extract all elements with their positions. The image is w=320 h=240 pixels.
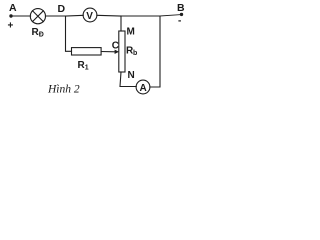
svg-text:A: A [140, 83, 147, 94]
svg-text:D: D [58, 3, 66, 15]
node B [177, 2, 185, 27]
ammeter A [136, 80, 150, 94]
wire junction to B segment [121, 15, 160, 17]
wire ammeter up to top wire [150, 16, 160, 87]
wire voltmeter to rheostat-top junction [97, 14, 121, 17]
svg-text:N: N [128, 70, 135, 81]
node A [8, 2, 18, 32]
wiper arrow C [112, 41, 119, 55]
voltmeter V [83, 8, 97, 22]
lamp RD (bulb) [30, 9, 45, 39]
svg-text:Đ: Đ [39, 31, 44, 38]
svg-text:1: 1 [85, 65, 89, 72]
wire lamp to D [45, 15, 65, 17]
rheostat Rb [119, 27, 137, 82]
wire D to voltmeter [66, 14, 84, 17]
wire R1 to wiper arrow [101, 51, 115, 53]
svg-text:A: A [9, 2, 17, 14]
svg-text:Hình 2: Hình 2 [47, 84, 80, 96]
svg-text:V: V [86, 11, 93, 22]
svg-text:+: + [8, 21, 14, 32]
resistor R1 [72, 48, 102, 72]
svg-text:M: M [127, 27, 135, 38]
svg-text:b: b [133, 50, 137, 57]
svg-text:C: C [112, 41, 119, 52]
svg-text:B: B [177, 2, 185, 14]
wire A to lamp [12, 15, 31, 17]
wire N to ammeter [120, 72, 136, 87]
svg-text:-: - [178, 16, 181, 27]
wire D down to R1 [66, 16, 72, 51]
wire top junction down to M terminal [120, 16, 122, 31]
